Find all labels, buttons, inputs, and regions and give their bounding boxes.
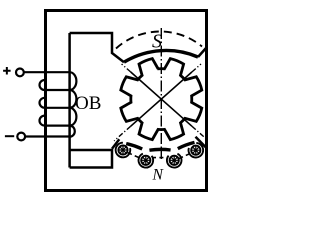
rotor diagonal axis 1	[131, 72, 192, 126]
bottom core bar	[70, 150, 112, 168]
svg-text:OB: OB	[75, 93, 101, 114]
bottom pole left edge	[112, 139, 119, 149]
rotor diagonal axis 2	[131, 72, 192, 126]
- terminal	[17, 133, 25, 141]
pole face N (bottom pole shoe arc, slotted)	[126, 142, 194, 150]
rotor (toothed wheel)	[121, 59, 202, 140]
armature conductor W3 (circle-cross, current into page)	[170, 156, 179, 165]
armature conductor W2 (circle-cross, current into page)	[141, 156, 150, 165]
bottom pole right edge	[196, 137, 207, 148]
axis extension dash-dot top-right	[192, 64, 201, 72]
axis extension dash-dot bottom-left	[114, 126, 131, 141]
+ terminal	[16, 69, 24, 77]
field coil crossing wire 1	[45, 89, 70, 91]
armature conductor W1 (circle-cross, current into page)	[118, 145, 127, 154]
armature slot wrap 4	[189, 143, 204, 158]
field coil: bottom lead wire to - terminal	[25, 135, 70, 137]
vertical axis dash-dot	[160, 28, 162, 159]
armature slot wrap 1	[116, 143, 131, 158]
field coil turn bumps (right side of limb)	[70, 72, 77, 137]
svg-text:S: S	[152, 30, 162, 52]
axis extension dash-dot bottom-right	[192, 126, 204, 137]
core window outline (left limb inner edge, top arm, notch)	[70, 33, 124, 168]
armature conductor W4 (circle-cross, current into page)	[191, 146, 200, 155]
stator frame (outer yoke)	[46, 11, 207, 191]
winding pitch dashed line right pair	[179, 153, 192, 159]
plus sign	[3, 67, 11, 75]
field coil crossing wire 2	[45, 107, 70, 109]
armature slot wrap 3	[167, 154, 182, 168]
winding pitch dashed line center	[152, 157, 169, 159]
armature slot wrap 2	[139, 154, 154, 168]
axis extension dash-dot top-left	[122, 64, 131, 72]
air-gap dashed arc (top)	[116, 31, 202, 48]
field coil back bumps (left side of limb)	[40, 80, 45, 126]
field coil: top lead wire from + terminal	[24, 71, 70, 73]
svg-text:N: N	[152, 166, 165, 183]
minus sign	[5, 135, 14, 137]
top pole right edge	[198, 48, 207, 58]
field coil crossing wire 3	[45, 124, 70, 126]
pole face S (top pole shoe arc)	[124, 50, 198, 62]
winding pitch dashed line left pair	[128, 153, 142, 159]
